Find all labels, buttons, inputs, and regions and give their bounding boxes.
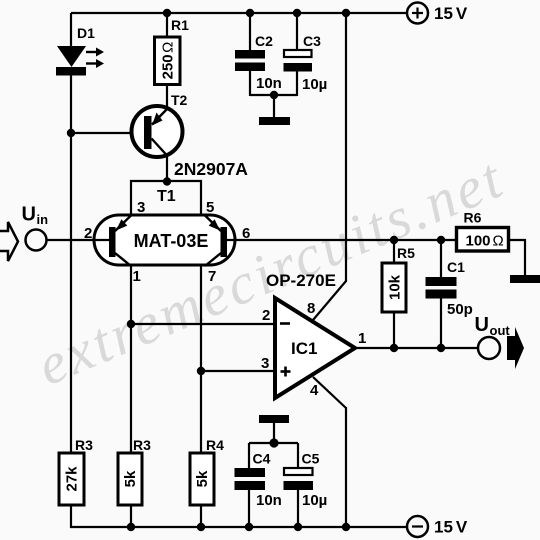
wire +15V rail to IC1 pin8	[345, 13, 347, 282]
svg-text:10k: 10k	[387, 274, 404, 300]
capacitor C5 electrolytic	[284, 443, 314, 527]
power +15V terminal	[407, 3, 428, 24]
resistor R5	[382, 263, 406, 312]
svg-text:T2: T2	[171, 92, 188, 108]
svg-text:C1: C1	[447, 259, 465, 275]
junction dot R1 top	[163, 9, 171, 17]
wire T1 pin1 down	[130, 265, 132, 454]
svg-text:out: out	[490, 323, 511, 338]
capacitor C3 electrolytic	[284, 13, 313, 96]
resistor R3 5k	[118, 453, 142, 505]
output arrow	[507, 327, 524, 369]
wire to ground top	[273, 95, 275, 117]
ground R6	[510, 275, 540, 283]
wire top +15V rail	[71, 12, 406, 14]
junction dot bottom pin4	[342, 523, 350, 531]
wire R1 to T2	[166, 85, 168, 110]
wire C2 C3 junction	[250, 94, 297, 96]
transistor T2	[132, 106, 183, 157]
svg-text:1: 1	[133, 268, 141, 285]
svg-text:4: 4	[310, 382, 319, 399]
svg-text:T1: T1	[157, 188, 176, 205]
junction dot pin1 / IC1 pin2	[127, 320, 135, 328]
junction dot bottom C4	[245, 523, 253, 531]
junction dot C1 top	[437, 236, 445, 244]
op-amp IC1	[275, 298, 355, 398]
svg-text:IC1: IC1	[291, 339, 317, 358]
wire U_in to T1 base	[46, 239, 109, 241]
resistor R1	[155, 37, 181, 85]
svg-text:MAT-03E: MAT-03E	[134, 231, 209, 251]
svg-text:15V: 15V	[434, 518, 468, 537]
svg-text:C5: C5	[302, 451, 320, 467]
junction dot R5 top	[390, 236, 398, 244]
svg-text:R4: R4	[206, 437, 224, 453]
output terminal U_out	[478, 337, 500, 359]
wire ground to C4/C5 junction	[273, 423, 275, 444]
svg-text:5k: 5k	[122, 470, 139, 487]
svg-text:5: 5	[206, 199, 214, 216]
svg-text:10n: 10n	[256, 75, 282, 92]
svg-text:2: 2	[262, 307, 270, 324]
junction dot bottom C5	[294, 523, 302, 531]
wire R5 top	[393, 240, 395, 263]
wire pin8 diagonal	[313, 281, 346, 320]
svg-text:2N2907A: 2N2907A	[174, 159, 248, 179]
junction dot C2/C3 gnd	[270, 91, 278, 99]
wire T2 collector	[166, 155, 168, 182]
svg-text:R6: R6	[464, 210, 482, 226]
junction dot C3 top	[293, 9, 301, 17]
svg-text:50p: 50p	[447, 301, 473, 318]
capacitor C4	[235, 443, 266, 527]
wire bottom -15V rail	[70, 526, 406, 528]
wire R3 5k bottom	[130, 504, 132, 527]
input arrow	[0, 222, 18, 261]
ground C4/C5	[259, 415, 289, 423]
svg-text:C3: C3	[303, 33, 321, 49]
junction dot T1 bracket	[163, 177, 171, 185]
junction dot pin7 / IC1 pin3	[197, 367, 205, 375]
junction dot C4/C5	[269, 438, 278, 447]
svg-text:OP-270E: OP-270E	[266, 271, 336, 290]
svg-text:7: 7	[208, 268, 216, 285]
wire pin4 diagonal	[313, 377, 346, 408]
junction dot bottom R4	[197, 523, 205, 531]
capacitor C2	[235, 13, 265, 96]
resistor R6	[457, 228, 509, 252]
wire to IC1 pin3	[201, 370, 275, 372]
svg-text:in: in	[37, 212, 49, 227]
junction dot T2 base on left rail	[67, 129, 75, 137]
wire T2 base	[71, 132, 145, 134]
wire to IC1 pin2	[131, 323, 275, 325]
svg-text:R3: R3	[75, 437, 93, 453]
svg-text:U: U	[475, 314, 489, 336]
svg-text:R3: R3	[133, 437, 151, 453]
wire left rail lower	[70, 504, 72, 528]
wire IC1 output	[355, 347, 478, 349]
wire R4 bottom	[200, 504, 202, 527]
svg-text:10n: 10n	[256, 492, 282, 509]
junction dot C2 top	[246, 9, 254, 17]
svg-text:5k: 5k	[194, 470, 211, 487]
capacitor C1	[426, 240, 457, 348]
svg-text:15V: 15V	[434, 4, 468, 23]
wire C4/C5 top join	[249, 442, 298, 444]
junction dot pin8 rail	[342, 9, 350, 17]
input terminal U_in	[26, 230, 47, 251]
power -15V terminal	[407, 516, 428, 537]
svg-text:U: U	[22, 204, 36, 226]
junction dot bottom R3 5k	[127, 523, 135, 531]
svg-text:27k: 27k	[64, 466, 81, 492]
wire T1 pin6 to R6	[227, 239, 457, 241]
wire R1 top	[166, 13, 168, 36]
wire T1 pin7 down	[200, 265, 202, 454]
wire pin4 down	[345, 407, 347, 527]
junction dot R5 bottom	[390, 344, 398, 352]
svg-text:D1: D1	[77, 25, 95, 41]
svg-text:8: 8	[307, 300, 315, 317]
svg-text:R1: R1	[171, 17, 189, 33]
wire R6 right	[508, 240, 525, 276]
junction dot C1 bottom	[437, 344, 445, 352]
svg-text:10µ: 10µ	[302, 76, 327, 93]
ground C2/C3	[259, 117, 290, 125]
wire left rail upper	[70, 13, 72, 47]
resistor R3 27k	[59, 453, 84, 505]
LED D1	[56, 46, 104, 76]
svg-text:3: 3	[261, 355, 269, 372]
svg-text:C2: C2	[255, 33, 273, 49]
resistor R4	[190, 453, 214, 505]
wire T1 top bracket	[131, 181, 201, 215]
svg-text:1: 1	[358, 330, 366, 347]
svg-text:R5: R5	[397, 245, 415, 261]
wire R5 bottom	[393, 312, 395, 348]
svg-text:C4: C4	[253, 451, 271, 467]
dual transistor T1 MAT-03E	[94, 215, 235, 266]
wire left rail middle	[70, 74, 72, 454]
svg-text:100Ω: 100Ω	[466, 233, 504, 250]
svg-text:3: 3	[137, 199, 145, 216]
svg-text:250Ω: 250Ω	[160, 42, 177, 80]
svg-text:10µ: 10µ	[302, 492, 327, 509]
